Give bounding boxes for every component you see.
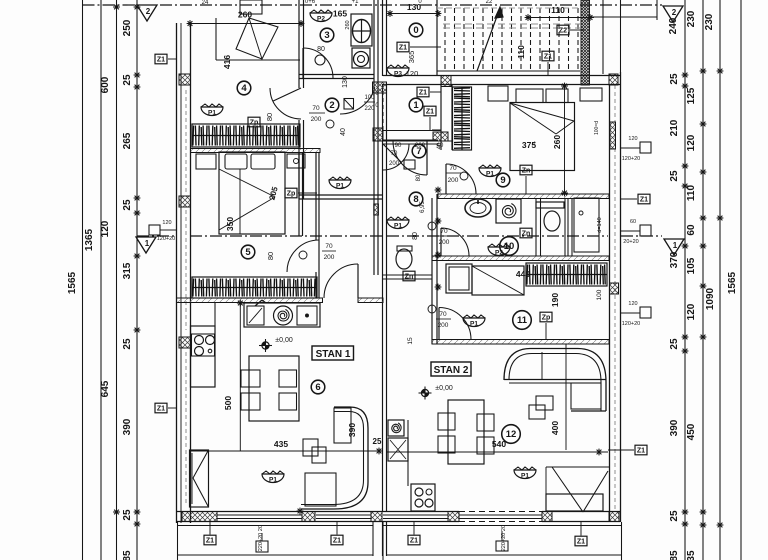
svg-text:Z1: Z1	[157, 57, 165, 64]
svg-text:60: 60	[686, 224, 697, 236]
svg-text:P1: P1	[336, 183, 344, 190]
svg-text:1: 1	[145, 239, 150, 248]
svg-text:P3: P3	[394, 71, 402, 78]
svg-text:0: 0	[413, 25, 418, 36]
svg-text:130: 130	[342, 76, 349, 88]
svg-text:Z2: Z2	[559, 28, 567, 35]
svg-text:120+20: 120+20	[157, 236, 176, 242]
svg-text:220+20: 220+20	[258, 533, 264, 552]
svg-text:P2: P2	[495, 250, 503, 257]
svg-text:120+20: 120+20	[622, 156, 641, 162]
svg-text:2: 2	[672, 8, 677, 17]
svg-text:25: 25	[669, 170, 680, 182]
svg-text:d: d	[533, 141, 536, 147]
svg-text:105: 105	[686, 257, 697, 274]
svg-text:1: 1	[673, 241, 678, 250]
svg-text:Z1: Z1	[577, 539, 585, 546]
svg-text:70: 70	[440, 228, 448, 235]
svg-text:120: 120	[686, 134, 697, 151]
svg-text:416: 416	[222, 55, 232, 69]
svg-text:P1: P1	[394, 223, 402, 230]
svg-text:80: 80	[416, 174, 422, 181]
svg-text:STAN 2: STAN 2	[434, 365, 469, 376]
svg-text:8: 8	[413, 194, 418, 205]
svg-text:25: 25	[122, 199, 133, 211]
svg-text:P1: P1	[470, 321, 478, 328]
svg-text:500: 500	[223, 396, 233, 410]
svg-text:1: 1	[413, 100, 419, 111]
svg-text:365: 365	[407, 51, 416, 64]
svg-text:120+20: 120+20	[622, 321, 641, 327]
svg-text:120: 120	[100, 220, 111, 237]
svg-text:+1: +1	[352, 0, 360, 5]
svg-text:Zn: Zn	[522, 231, 531, 238]
svg-text:125: 125	[686, 87, 697, 104]
svg-text:390: 390	[122, 418, 133, 435]
svg-text:350: 350	[225, 217, 235, 231]
svg-text:Z1: Z1	[157, 406, 165, 413]
svg-text:P1: P1	[269, 477, 277, 484]
svg-text:22: 22	[486, 0, 493, 5]
svg-text:Zp: Zp	[542, 315, 551, 322]
svg-text:STAN 1: STAN 1	[316, 349, 351, 360]
svg-text:390: 390	[669, 419, 680, 436]
svg-text:60: 60	[630, 219, 636, 225]
svg-text:540: 540	[492, 439, 506, 449]
svg-text:645: 645	[100, 380, 111, 397]
svg-text:Z1: Z1	[637, 448, 645, 455]
svg-text:230: 230	[686, 10, 697, 27]
svg-text:Z1: Z1	[399, 45, 407, 52]
svg-text:Z1: Z1	[426, 109, 434, 116]
svg-text:25: 25	[122, 74, 133, 86]
svg-text:435: 435	[274, 439, 288, 449]
svg-text:Z1: Z1	[333, 538, 341, 545]
svg-text:6: 6	[315, 382, 320, 393]
svg-text:25: 25	[669, 73, 680, 85]
svg-text:2: 2	[329, 100, 334, 111]
svg-text:11: 11	[517, 315, 528, 326]
svg-text:35: 35	[686, 550, 697, 560]
svg-text:70: 70	[391, 151, 398, 157]
svg-text:265: 265	[122, 132, 133, 149]
svg-text:230: 230	[704, 13, 715, 30]
svg-text:1565: 1565	[67, 271, 78, 294]
svg-text:210: 210	[669, 119, 680, 136]
svg-text:120: 120	[628, 301, 637, 307]
svg-text:110: 110	[686, 184, 697, 201]
svg-text:±0,00: ±0,00	[275, 337, 293, 344]
svg-text:70: 70	[312, 105, 320, 112]
svg-text:70: 70	[325, 243, 333, 250]
svg-text:15: 15	[407, 337, 414, 345]
svg-text:±0,00: ±0,00	[435, 385, 453, 392]
svg-text:80: 80	[266, 252, 275, 260]
svg-text:120: 120	[686, 303, 697, 320]
svg-text:165: 165	[333, 9, 347, 19]
svg-text:200: 200	[448, 177, 459, 184]
svg-text:315: 315	[122, 262, 133, 279]
svg-text:100=d: 100=d	[594, 121, 600, 135]
svg-text:Zp: Zp	[250, 120, 259, 127]
svg-text:Z1: Z1	[206, 538, 214, 545]
svg-text:25: 25	[122, 509, 133, 521]
svg-text:85: 85	[669, 550, 680, 560]
svg-text:P2: P2	[317, 16, 325, 23]
svg-text:110: 110	[551, 5, 565, 15]
svg-text:80: 80	[412, 232, 419, 240]
svg-text:9: 9	[500, 175, 505, 186]
svg-text:80: 80	[265, 113, 274, 121]
svg-text:100: 100	[596, 289, 603, 300]
svg-text:d=140: d=140	[597, 217, 603, 232]
svg-text:260: 260	[552, 135, 562, 149]
svg-text:240: 240	[668, 17, 679, 34]
svg-text:70: 70	[439, 311, 447, 318]
svg-text:0+6: 0+6	[305, 0, 316, 5]
svg-text:24: 24	[202, 0, 209, 6]
svg-text:Zp: Zp	[287, 191, 296, 198]
svg-text:390: 390	[347, 423, 357, 437]
svg-text:Z1: Z1	[410, 538, 418, 545]
svg-text:200: 200	[389, 161, 400, 167]
svg-text:6,95: 6,95	[420, 201, 426, 213]
svg-text:190: 190	[550, 293, 560, 307]
svg-text:40: 40	[437, 142, 443, 149]
svg-text:1090: 1090	[705, 287, 716, 310]
svg-text:5: 5	[245, 247, 251, 258]
svg-text:120: 120	[162, 220, 171, 226]
svg-text:P1: P1	[486, 171, 494, 178]
svg-text:3: 3	[324, 30, 329, 41]
svg-text:200: 200	[324, 254, 335, 261]
svg-text:25: 25	[122, 338, 133, 350]
svg-text:85: 85	[122, 550, 133, 560]
svg-text:200: 200	[311, 116, 322, 123]
svg-text:440: 440	[516, 269, 530, 279]
svg-text:4: 4	[241, 83, 247, 94]
svg-text:Zn: Zn	[522, 168, 531, 175]
svg-text:120: 120	[406, 69, 419, 78]
svg-text:220: 220	[364, 106, 375, 112]
svg-text:Z1: Z1	[419, 90, 427, 97]
svg-text:Z1: Z1	[544, 54, 552, 61]
svg-text:450: 450	[686, 423, 697, 440]
svg-text:2: 2	[146, 7, 151, 16]
svg-text:260: 260	[238, 10, 252, 20]
svg-text:100: 100	[364, 95, 375, 101]
svg-text:120: 120	[628, 136, 637, 142]
svg-text:250: 250	[122, 19, 133, 36]
svg-text:600: 600	[100, 76, 111, 93]
svg-text:400: 400	[550, 421, 560, 435]
svg-text:Z1: Z1	[640, 197, 648, 204]
svg-text:200: 200	[439, 239, 450, 246]
svg-text:200: 200	[438, 322, 449, 329]
svg-text:260: 260	[345, 20, 351, 29]
svg-text:P1: P1	[521, 473, 529, 480]
svg-text:12: 12	[506, 429, 517, 440]
svg-text:P1: P1	[208, 110, 216, 117]
svg-text:1565: 1565	[727, 271, 738, 294]
svg-text:70: 70	[449, 165, 457, 172]
svg-text:25: 25	[669, 510, 680, 522]
svg-text:1365: 1365	[84, 228, 95, 251]
svg-text:20+20: 20+20	[623, 239, 638, 245]
svg-text:40: 40	[340, 128, 347, 136]
svg-text:25: 25	[373, 437, 382, 446]
svg-text:110: 110	[516, 45, 526, 59]
svg-text:25: 25	[669, 338, 680, 350]
